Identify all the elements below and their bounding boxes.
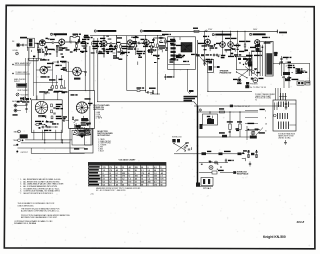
pot LOUDNESS	[23, 97, 26, 100]
scan noise speckle	[106, 44, 108, 46]
wire	[29, 58, 42, 60]
svg-text:FOR COLOR CODE): FOR COLOR CODE)	[255, 98, 271, 100]
capacitor	[225, 159, 227, 161]
component cluster	[157, 44, 159, 47]
svg-text:VOLUME: VOLUME	[21, 94, 30, 96]
labels	[162, 34, 169, 35]
svg-text:OUTPUT: OUTPUT	[21, 152, 29, 154]
arrow	[214, 66, 220, 68]
labels	[40, 59, 47, 60]
wire	[46, 46, 48, 48]
wire	[194, 102, 198, 106]
wire	[116, 36, 118, 45]
svg-text:LEVEL: LEVEL	[13, 50, 19, 52]
svg-text:170: 170	[160, 179, 163, 181]
labels	[38, 49, 42, 50]
svg-text:.45: .45	[115, 169, 118, 172]
labels	[221, 55, 225, 56]
labels	[239, 41, 245, 42]
svg-text:255: 255	[135, 176, 138, 178]
heavy chassis wire	[197, 106, 199, 187]
AC plug contacts	[172, 139, 175, 142]
labels	[82, 39, 87, 40]
wire	[199, 162, 228, 164]
arrow B+	[245, 85, 249, 88]
wire	[260, 40, 265, 42]
wire	[174, 153, 245, 155]
cluster	[248, 61, 252, 66]
component cluster top	[196, 54, 199, 56]
switch assembly box	[236, 57, 252, 70]
switch hub	[81, 135, 83, 137]
svg-text:255: 255	[148, 182, 151, 184]
svg-text:65: 65	[148, 176, 150, 178]
wire	[65, 62, 67, 72]
wire vertical	[126, 36, 128, 44]
wire above box	[36, 96, 38, 100]
resistor R5	[76, 45, 78, 48]
labels	[63, 116, 67, 117]
speaker terminal boxes	[297, 81, 304, 85]
svg-text:404-8: 404-8	[296, 220, 305, 224]
svg-text:2.1: 2.1	[141, 170, 144, 172]
svg-text:170: 170	[154, 185, 157, 187]
svg-text:LINE AT 117VAC: LINE AT 117VAC	[278, 136, 291, 139]
svg-text:98: 98	[141, 176, 143, 178]
resistor R10	[152, 91, 153, 94]
capacitor	[44, 92, 46, 94]
tube V4	[144, 40, 150, 46]
junction	[145, 90, 146, 91]
svg-text:98: 98	[135, 170, 137, 172]
svg-text:NC - NO CONNECTION * - SEE: NC - NO CONNECTION * - SEE NOTE	[96, 190, 126, 192]
diagonal	[256, 128, 263, 136]
fuse box	[212, 171, 217, 174]
fuse F1	[276, 30, 278, 34]
capacitor C2	[51, 42, 53, 44]
component	[274, 52, 277, 56]
svg-text:VOLTAGE CHART: VOLTAGE CHART	[119, 159, 137, 162]
labels	[84, 35, 88, 36]
junction	[62, 139, 63, 140]
wire	[309, 64, 311, 82]
wire	[274, 103, 276, 111]
EQ network box	[181, 43, 192, 53]
svg-text:.45: .45	[109, 178, 112, 181]
svg-text:255: 255	[122, 173, 125, 175]
resistor R15	[239, 124, 241, 130]
speaker taps	[245, 110, 258, 112]
svg-text:.45: .45	[160, 172, 163, 175]
junction	[157, 93, 158, 94]
dark blob	[81, 118, 87, 121]
resistor R7	[135, 44, 137, 47]
junction	[222, 31, 223, 32]
capacitor	[200, 124, 203, 129]
svg-text:1.2: 1.2	[154, 173, 157, 175]
wire	[24, 58, 26, 99]
svg-text:12: 12	[160, 182, 162, 184]
capacitor	[249, 163, 251, 165]
svg-text:2.1: 2.1	[103, 179, 106, 181]
tube V3	[127, 40, 132, 45]
resistor R13	[244, 44, 246, 47]
labels	[254, 55, 260, 56]
resistor R1	[37, 48, 39, 51]
capacitor C10	[280, 93, 282, 100]
wire	[45, 42, 52, 44]
svg-text:0: 0	[160, 167, 161, 169]
section header 6EU7 AF AMPL	[140, 30, 142, 32]
svg-text:.45: .45	[135, 178, 138, 181]
svg-text:170: 170	[154, 179, 157, 181]
tube V1B	[59, 39, 65, 45]
wire	[65, 41, 70, 43]
cluster	[251, 78, 253, 80]
svg-text:0: 0	[103, 173, 104, 175]
filter box	[203, 114, 218, 125]
wire	[196, 186, 213, 188]
arrow interlock	[233, 171, 236, 174]
resistor R14	[229, 124, 231, 130]
capacitor	[84, 71, 86, 73]
labels	[74, 148, 79, 149]
tube V13 7199	[73, 67, 82, 76]
svg-text:12: 12	[109, 173, 111, 175]
resistor R2	[46, 48, 48, 51]
svg-text:12: 12	[128, 170, 130, 172]
svg-text:IN POSITION 1: IN POSITION 1	[97, 135, 110, 137]
svg-text:INTERLOCK: INTERLOCK	[172, 137, 183, 139]
wire	[173, 37, 175, 76]
arrow	[74, 120, 76, 124]
labels	[203, 36, 207, 37]
tube V10 12AX7	[40, 66, 48, 74]
svg-text:255: 255	[135, 167, 138, 169]
svg-text:65: 65	[115, 179, 117, 181]
component texture output stage	[178, 56, 180, 57]
labels	[59, 47, 63, 48]
wire	[52, 70, 54, 86]
stage box	[168, 37, 196, 70]
svg-text:8: 8	[265, 118, 266, 120]
svg-text:170: 170	[122, 176, 125, 178]
wire	[187, 69, 189, 91]
labels	[74, 49, 78, 50]
wire	[198, 136, 251, 138]
wire	[273, 52, 277, 54]
jack cluster	[238, 80, 240, 82]
wire	[248, 52, 250, 76]
labels	[50, 121, 54, 122]
wire	[121, 43, 127, 45]
arrow	[188, 91, 192, 94]
jack	[15, 105, 17, 107]
svg-text:BASS: BASS	[14, 130, 20, 133]
table header row	[88, 162, 166, 165]
junction	[229, 111, 230, 112]
labels	[260, 109, 265, 110]
svg-text:PHONES: PHONES	[250, 84, 258, 86]
component cluster	[52, 86, 54, 89]
svg-text:16: 16	[265, 124, 267, 126]
resistor R11	[179, 54, 181, 57]
svg-text:T2: T2	[255, 99, 257, 101]
cluster	[20, 98, 24, 100]
component texture right section	[251, 51, 255, 52]
svg-text:RECEPTACLE: RECEPTACLE	[237, 172, 249, 175]
section header 6BQ5 OUTPUT	[212, 34, 214, 36]
wire	[230, 31, 232, 41]
svg-text:INPUT: INPUT	[14, 81, 21, 83]
cluster	[57, 61, 59, 63]
component cluster	[147, 91, 149, 93]
svg-text:.45: .45	[109, 175, 112, 178]
svg-text:6.3: 6.3	[115, 182, 118, 184]
svg-text:CER PHONO: CER PHONO	[17, 90, 29, 92]
svg-text:12: 12	[141, 179, 143, 181]
output transformer T1 box	[265, 41, 273, 76]
labels	[207, 151, 211, 152]
components	[63, 119, 65, 121]
svg-text:1.2: 1.2	[148, 179, 151, 181]
junction	[89, 98, 91, 100]
tube base box	[85, 129, 93, 145]
wire	[207, 72, 209, 91]
svg-text:4: 4	[286, 66, 287, 68]
cluster	[20, 134, 28, 138]
svg-text:12: 12	[128, 176, 130, 178]
resistor R4	[73, 36, 76, 38]
svg-text:2.1: 2.1	[109, 185, 112, 187]
resistor R6	[103, 49, 105, 52]
bus wire	[31, 152, 84, 154]
fuse label	[297, 69, 300, 71]
capacitor C6	[138, 42, 140, 44]
svg-text:0: 0	[135, 173, 136, 175]
svg-text:98: 98	[154, 170, 156, 172]
winding bars	[278, 102, 280, 108]
wire	[74, 124, 76, 128]
svg-text:1.2: 1.2	[103, 170, 106, 172]
svg-text:BETWEEN THIS DIAGRAM AND YOUR: BETWEEN THIS DIAGRAM AND YOUR UNIT.	[21, 216, 58, 219]
dark blob	[81, 118, 88, 121]
component	[165, 40, 167, 43]
svg-text:170: 170	[128, 182, 131, 184]
labels	[148, 49, 154, 50]
svg-text:1.2: 1.2	[109, 182, 112, 184]
wire	[273, 63, 310, 65]
wire	[157, 36, 159, 44]
labels	[225, 38, 230, 39]
tube base circle	[86, 131, 89, 134]
wire	[80, 41, 87, 43]
tube V5 6C4	[205, 39, 211, 45]
capacitor C9	[280, 58, 282, 60]
svg-text:98: 98	[141, 185, 143, 187]
junction dots heavy bus	[197, 111, 198, 112]
wire	[196, 40, 198, 106]
resistor R12	[237, 44, 239, 47]
svg-text:6.3: 6.3	[154, 167, 157, 169]
components in box column	[171, 40, 176, 42]
svg-text:2.1: 2.1	[160, 176, 163, 178]
svg-text:6.3: 6.3	[103, 182, 106, 184]
section header 12AX7 TONE AMPL	[94, 30, 96, 32]
stage box V11	[32, 100, 63, 133]
resistor column	[51, 104, 53, 107]
svg-text:170: 170	[103, 167, 106, 169]
wire	[70, 36, 73, 38]
wire	[48, 69, 53, 71]
svg-text:0: 0	[148, 185, 149, 187]
tube V12 base diagram	[76, 102, 87, 113]
component cluster	[116, 45, 118, 48]
svg-text:98: 98	[160, 185, 162, 187]
svg-text:6.3: 6.3	[154, 182, 157, 184]
wire	[103, 36, 105, 41]
labels	[248, 123, 255, 124]
voltage chart table	[88, 162, 166, 186]
section header 6EU7 1ST AF AMPL	[50, 33, 52, 35]
svg-text:6U8: 6U8	[38, 116, 41, 118]
junction	[69, 41, 70, 42]
resistor on B wire	[220, 111, 225, 113]
wire	[275, 88, 277, 100]
svg-text:.45: .45	[128, 166, 131, 169]
rotary switch fan	[74, 134, 83, 136]
capacitor C3	[69, 41, 71, 43]
svg-text:7. AUX: 7. AUX	[98, 149, 104, 152]
switch diagonal	[237, 72, 248, 78]
svg-text:Knight KN-500: Knight KN-500	[263, 235, 286, 239]
note text lumps	[184, 96, 198, 98]
svg-text:170: 170	[109, 170, 112, 172]
labels	[50, 39, 55, 40]
labels	[35, 121, 41, 122]
wire B+ line	[194, 105, 281, 107]
svg-text:98: 98	[115, 176, 117, 178]
capacitor C4	[85, 45, 87, 47]
bus wire	[90, 35, 165, 37]
svg-text:0: 0	[122, 182, 123, 184]
svg-text:TO PIN 4 OF V6, V7: TO PIN 4 OF V6, V7	[234, 106, 250, 108]
top bus wire	[155, 30, 277, 32]
component cluster	[283, 72, 290, 75]
diagonal	[283, 77, 291, 81]
labels	[170, 39, 175, 40]
AC plug	[201, 178, 213, 186]
tube V2	[101, 41, 107, 47]
svg-text:12: 12	[128, 185, 130, 187]
wire	[97, 101, 194, 103]
svg-text:TAPE HEAD INPUT: TAPE HEAD INPUT	[15, 62, 33, 65]
tube V11 6U8 base diagram	[35, 101, 47, 113]
ground symbol	[285, 140, 287, 143]
svg-text:170: 170	[109, 167, 112, 169]
wire	[145, 36, 147, 40]
wire	[140, 90, 146, 92]
svg-text:65: 65	[122, 185, 124, 187]
jack	[15, 110, 17, 112]
rectifier box	[207, 59, 213, 72]
section header 5Y3 RECTIFIER	[250, 33, 252, 35]
svg-text:PHASING SW: PHASING SW	[220, 71, 232, 74]
svg-text:INDIANAPOLIS 6, INDIANA: INDIANAPOLIS 6, INDIANA	[14, 222, 37, 225]
component texture power section	[208, 118, 212, 119]
capacitor cluster	[203, 59, 205, 61]
svg-text:98: 98	[141, 167, 143, 169]
capacitor resistor pair	[247, 151, 249, 153]
wire	[168, 64, 190, 66]
capacitor	[184, 146, 186, 148]
jack	[16, 144, 18, 146]
svg-text:GND: GND	[13, 145, 18, 147]
component texture left mid	[59, 91, 63, 92]
wire	[37, 43, 39, 47]
label lump	[20, 37, 27, 39]
wire	[199, 172, 212, 174]
shield box tube V1A	[27, 38, 34, 47]
labels	[128, 46, 135, 47]
diagonal wire	[245, 67, 258, 77]
switch diagonals	[174, 144, 186, 151]
pot TREBLE	[18, 139, 21, 142]
diagonal wire	[200, 56, 207, 64]
svg-text:65: 65	[103, 176, 105, 178]
svg-text:0: 0	[148, 167, 149, 169]
arrow label	[230, 105, 233, 108]
svg-text:98: 98	[135, 185, 137, 187]
pot BASS	[18, 130, 21, 133]
bus wire	[18, 147, 85, 149]
lamp I1	[209, 166, 213, 170]
labels	[93, 41, 99, 42]
power transformer T2 box	[273, 100, 296, 131]
svg-text:6.3: 6.3	[103, 185, 106, 187]
capacitor resistor pair	[255, 151, 257, 153]
component	[285, 79, 290, 82]
capacitor	[53, 107, 55, 109]
wire	[28, 48, 30, 61]
component texture top chain	[44, 42, 46, 44]
labels	[113, 55, 117, 56]
svg-text:2.1: 2.1	[135, 182, 138, 184]
label lump	[74, 78, 80, 80]
bus wire	[21, 142, 70, 144]
tube V1 6EU7	[39, 40, 45, 46]
junction	[197, 105, 199, 107]
svg-text:12: 12	[122, 167, 124, 169]
wire	[229, 112, 231, 124]
junction	[116, 43, 117, 44]
pot VOLUME	[16, 93, 19, 96]
wire	[35, 124, 36, 126]
svg-text:0: 0	[128, 173, 129, 175]
wire	[44, 130, 46, 143]
svg-text:255: 255	[160, 170, 163, 172]
labels	[206, 59, 211, 60]
stage box V12	[69, 91, 95, 129]
labels	[81, 122, 86, 123]
resistor R3	[56, 49, 58, 52]
junction	[277, 52, 278, 53]
labels	[22, 101, 26, 102]
components on wire	[202, 152, 207, 155]
jack	[16, 151, 18, 153]
pilot lamp	[215, 161, 218, 164]
tube V8 rectifier	[255, 40, 260, 45]
